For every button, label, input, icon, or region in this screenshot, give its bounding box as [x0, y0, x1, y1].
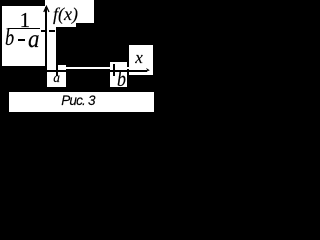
fraction bar: [8, 28, 40, 30]
y-axis line: [45, 7, 47, 76]
left white panel: [2, 6, 56, 66]
tick at a: [56, 65, 58, 76]
x-axis white band: [47, 67, 153, 69]
caption bar: [9, 92, 154, 113]
f(x) label box: [45, 0, 94, 23]
x label: [135, 49, 143, 66]
a label box: [47, 65, 66, 87]
b label: [117, 68, 126, 91]
f(x) label: [53, 5, 78, 23]
x-axis arrowhead: [143, 66, 151, 74]
dashed level line left dash: [41, 30, 45, 32]
a label: [53, 71, 60, 85]
strip below f(x) box: [45, 23, 76, 27]
y-axis arrowhead: [42, 5, 52, 14]
x-axis line: [45, 70, 147, 72]
caption Puc. 3: [61, 94, 94, 108]
x label box: [129, 45, 154, 75]
fraction denominator a: [28, 26, 39, 52]
fraction minus: [18, 39, 26, 41]
b label box: [110, 62, 127, 87]
dashed level line right dash: [49, 30, 55, 32]
fraction denominator b - a: [5, 27, 14, 51]
fraction numerator 1: [20, 10, 31, 31]
tick at b: [113, 64, 115, 76]
